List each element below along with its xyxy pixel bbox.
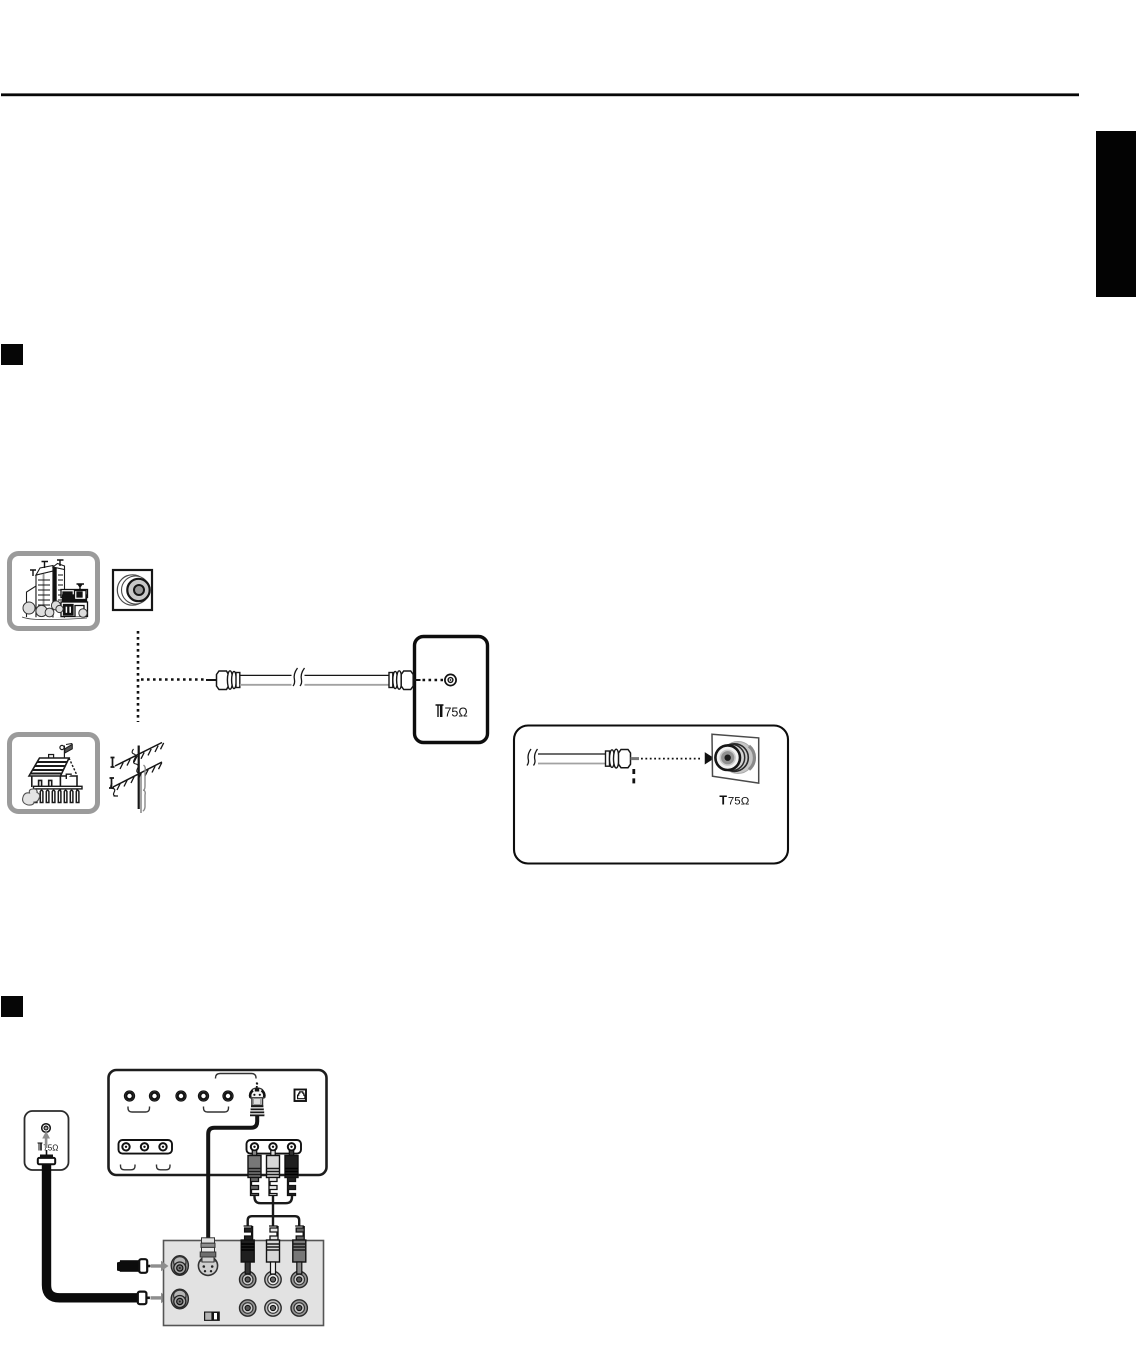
house drawing — [23, 744, 82, 806]
TV 75 ohm terminal — [445, 674, 456, 685]
antenna cable plug at wall box — [38, 1150, 55, 1164]
inset coaxial cable with F connector — [527, 749, 639, 768]
bracket under terminals left pair — [128, 1107, 150, 1113]
cable TV buildings icon box — [10, 554, 98, 629]
RCA plug set upper (into TV) — [248, 1151, 298, 1196]
antenna wall box — [25, 1111, 69, 1170]
section heading square 2 — [1, 996, 23, 1017]
s-video cable run — [208, 1116, 257, 1239]
TV component jack block — [247, 1140, 302, 1154]
VCR RCA jacks row 2 — [240, 1300, 308, 1316]
dotted line cable to TV terminal — [423, 679, 444, 682]
section heading square 1 — [1, 344, 23, 365]
VCR RCA jacks row 1 — [240, 1271, 308, 1287]
TV antenna input box — [415, 637, 488, 743]
wall plate 75 ohm label — [719, 793, 749, 807]
lock icon — [295, 1090, 307, 1102]
thick antenna cable — [47, 1164, 139, 1298]
TV 75 ohm label — [436, 705, 468, 719]
wall box 75 ohm label — [38, 1143, 59, 1152]
VCR antenna in jack — [171, 1256, 188, 1276]
dotted line from cable outlet (vertical) — [137, 631, 140, 722]
side index tab — [1096, 131, 1136, 297]
top bracket over s-video — [216, 1074, 257, 1079]
antenna coaxial cable — [206, 668, 421, 691]
home antenna icon box — [10, 735, 98, 812]
svg-text:75Ω: 75Ω — [444, 705, 467, 719]
VCR back panel — [164, 1241, 324, 1326]
s-video plug on TV — [250, 1083, 264, 1116]
dotted line to cable (horizontal) — [141, 678, 206, 681]
buildings drawing — [22, 560, 88, 620]
RCA plug set lower (into VCR) — [241, 1226, 306, 1274]
cable end ferrule (to VCR) — [138, 1292, 150, 1305]
wall coax outlet icon (cable) — [113, 570, 152, 610]
F plug with arrow at VCR ant-in — [117, 1259, 151, 1273]
VCR antenna out jack — [171, 1289, 188, 1309]
s-video jack on VCR with plug — [198, 1238, 217, 1276]
brackets under audio block — [121, 1165, 171, 1170]
wall box insert arrow — [42, 1131, 50, 1148]
wall socket inset box — [514, 726, 788, 864]
bracket under terminals right pair — [204, 1107, 229, 1113]
TV rear terminals row — [125, 1091, 234, 1101]
gray arrow at ant-in — [151, 1261, 169, 1272]
svg-text:T: T — [719, 793, 727, 807]
VCR input select switch — [204, 1312, 220, 1321]
wall plate — [712, 734, 759, 783]
svg-text:75Ω: 75Ω — [728, 795, 750, 807]
component cable loop lower — [248, 1216, 300, 1226]
wall box terminal — [42, 1124, 51, 1133]
dashed alignment mark — [632, 769, 635, 785]
header rule — [1, 93, 1079, 96]
TV audio jack block — [119, 1140, 173, 1154]
gray arrow into VCR ant jack — [151, 1293, 169, 1304]
yagi antenna icon — [109, 743, 164, 814]
component cable loop upper — [255, 1196, 293, 1218]
dotted arrow to wall socket — [641, 754, 713, 764]
TV back panel — [109, 1070, 327, 1175]
